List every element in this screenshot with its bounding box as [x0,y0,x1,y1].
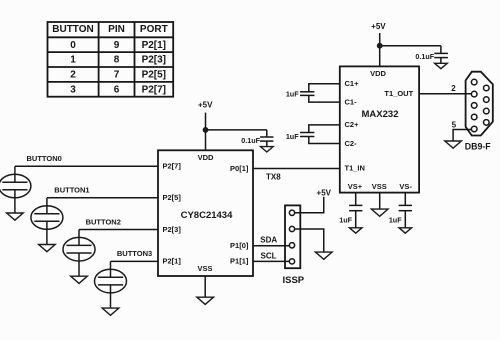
svg-text:P2[7]: P2[7] [163,162,182,171]
svg-text:0.1uF: 0.1uF [415,52,434,61]
svg-text:DB9-F: DB9-F [465,142,492,152]
svg-text:3: 3 [70,84,76,95]
svg-text:6: 6 [114,84,120,95]
svg-text:VS+: VS+ [348,182,363,191]
svg-text:BUTTON1: BUTTON1 [54,186,89,195]
svg-text:ISSP: ISSP [282,275,304,286]
svg-text:+5V: +5V [371,22,386,31]
svg-text:T1_OUT: T1_OUT [384,89,413,98]
svg-text:P2[5]: P2[5] [163,193,182,202]
svg-text:9: 9 [114,40,120,51]
svg-text:TX8: TX8 [266,173,281,182]
svg-text:C2-: C2- [345,139,358,148]
svg-text:C1-: C1- [345,97,358,106]
svg-text:P1[1]: P1[1] [230,257,249,266]
svg-text:P2[1]: P2[1] [163,257,182,266]
svg-text:P2[3]: P2[3] [142,55,166,66]
svg-text:2: 2 [451,84,456,93]
svg-text:BUTTON: BUTTON [52,24,93,35]
svg-text:+5V: +5V [198,101,213,110]
svg-text:1uF: 1uF [339,216,352,225]
svg-text:C2+: C2+ [345,120,360,129]
svg-text:VSS: VSS [372,182,387,191]
svg-text:PORT: PORT [140,24,168,35]
svg-text:BUTTON2: BUTTON2 [86,217,121,226]
svg-text:T1_IN: T1_IN [345,164,365,173]
svg-text:CY8C21434: CY8C21434 [181,210,233,221]
svg-text:0: 0 [70,40,76,51]
svg-text:1uF: 1uF [286,132,299,141]
svg-text:BUTTON0: BUTTON0 [27,154,62,163]
svg-text:2: 2 [70,70,76,81]
svg-text:0.1uF: 0.1uF [241,136,260,145]
svg-text:VDD: VDD [370,69,386,78]
svg-text:VDD: VDD [198,153,214,162]
svg-text:MAX232: MAX232 [362,109,399,120]
svg-text:C1+: C1+ [345,79,360,88]
svg-text:PIN: PIN [108,24,125,35]
svg-text:+5V: +5V [317,188,332,197]
svg-text:7: 7 [114,70,120,81]
svg-text:P2[5]: P2[5] [142,70,166,81]
svg-text:VSS: VSS [197,264,212,273]
svg-text:P2[7]: P2[7] [142,84,166,95]
svg-text:VS-: VS- [399,182,412,191]
svg-text:8: 8 [114,55,120,66]
svg-text:SCL: SCL [261,252,277,261]
svg-text:5: 5 [452,121,457,130]
svg-text:SDA: SDA [260,235,277,244]
svg-text:1: 1 [70,55,76,66]
svg-text:BUTTON3: BUTTON3 [117,249,152,258]
svg-text:P2[1]: P2[1] [142,40,166,51]
svg-text:1uF: 1uF [389,216,402,225]
svg-text:P2[3]: P2[3] [163,225,182,234]
svg-text:P0[1]: P0[1] [230,164,249,173]
svg-text:1uF: 1uF [286,90,299,99]
svg-text:P1[0]: P1[0] [230,241,249,250]
